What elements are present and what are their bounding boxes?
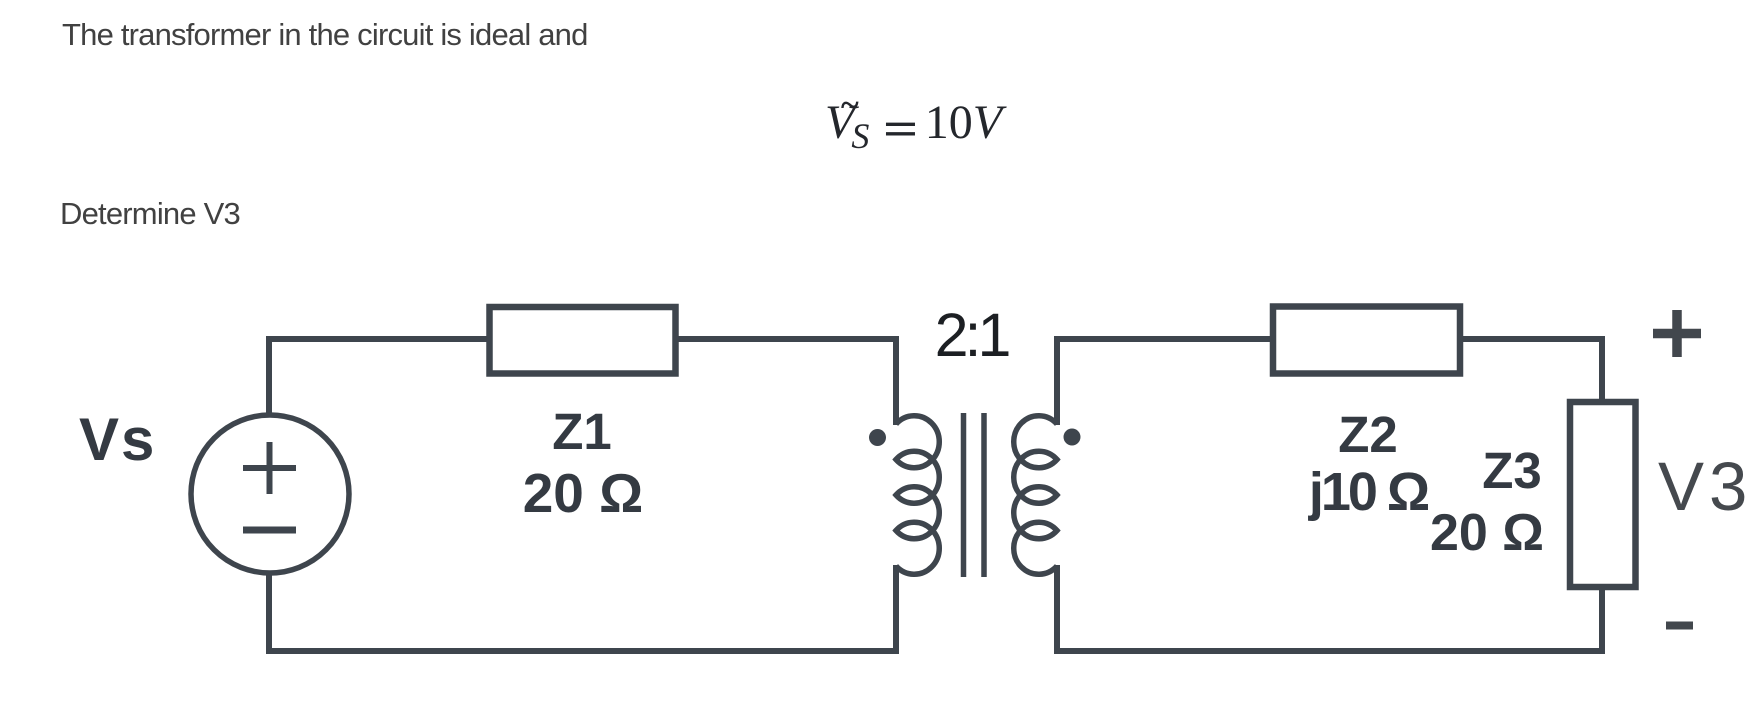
svg-text:Vs: Vs [79, 406, 156, 473]
wire: source top to Z1 left [269, 339, 489, 416]
svg-text:Z2: Z2 [1338, 406, 1398, 463]
formula Vs = 10V [825, 99, 1002, 147]
plus sign of V3 polarity [1653, 310, 1701, 357]
svg-text:20 Ω: 20 Ω [523, 462, 644, 524]
svg-text:Z1: Z1 [552, 403, 612, 460]
resistor Z1 [490, 307, 676, 374]
transformer polarity dot secondary [1064, 429, 1081, 446]
wire: primary coil bottom, bottom wire, to source bottom [269, 565, 896, 651]
wire: Z2 right to Z3 top [1459, 339, 1602, 403]
transformer core [964, 413, 985, 577]
paragraph: Determine V3 [60, 198, 240, 229]
resistor Z2 [1273, 307, 1460, 374]
wire: secondary coil top to Z2 left [1057, 339, 1274, 425]
transformer polarity dot primary [869, 429, 886, 446]
transformer primary coil [896, 416, 939, 574]
svg-text:2:1: 2:1 [935, 301, 1009, 369]
wire: Z3 bottom, bottom wire, to secondary coil bottom [1057, 565, 1602, 651]
resistor Z3 [1570, 402, 1636, 587]
svg-text:j10 Ω: j10 Ω [1308, 462, 1429, 522]
voltage source Vs [191, 415, 349, 573]
svg-text:Z3: Z3 [1482, 442, 1542, 499]
paragraph: problem statement [62, 19, 588, 50]
transformer secondary coil [1014, 416, 1057, 574]
svg-text:V3: V3 [1658, 448, 1752, 525]
wire: Z1 right to primary coil top [675, 339, 896, 425]
svg-text:20 Ω: 20 Ω [1430, 504, 1544, 562]
minus sign of V3 polarity [1666, 622, 1693, 630]
